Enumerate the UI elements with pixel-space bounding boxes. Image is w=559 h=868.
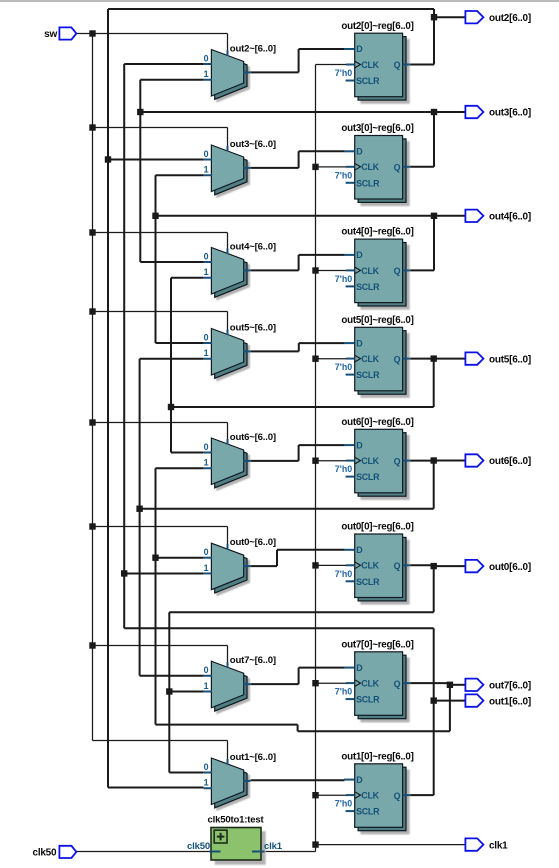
wire clock branch to CLK: [316, 460, 347, 462]
wire select drop into mux: [227, 312, 229, 331]
wire out1 feedback: [124, 627, 434, 629]
junction sw tap: [89, 523, 95, 529]
svg-text:CLK: CLK: [361, 60, 379, 70]
svg-text:Q: Q: [394, 456, 401, 466]
wire clock branch to CLK: [316, 564, 347, 566]
wire out7 to mux out0 input 0: [156, 557, 204, 559]
svg-text:Q: Q: [394, 791, 401, 801]
block clk50to1:test: [187, 814, 283, 864]
junction sw tap: [89, 124, 95, 130]
output port clk1: [465, 838, 508, 851]
net out0: Q to port and feedback: [410, 564, 434, 566]
svg-text:out0~[6..0]: out0~[6..0]: [230, 537, 276, 548]
svg-text:SCLR: SCLR: [356, 282, 380, 292]
svg-text:out3[0]~reg[6..0]: out3[0]~reg[6..0]: [341, 123, 413, 134]
output port out0[6..0]: [465, 560, 531, 573]
svg-text:0: 0: [204, 442, 209, 452]
wire out3 to mux out2 input 1: [140, 79, 203, 81]
svg-text:0: 0: [204, 332, 209, 342]
wire out4 feedback: [156, 215, 435, 217]
output port out7[6..0]: [465, 679, 531, 692]
svg-text:out3~[6..0]: out3~[6..0]: [230, 139, 276, 150]
svg-text:out1[0]~reg[6..0]: out1[0]~reg[6..0]: [341, 751, 413, 762]
output port out6[6..0]: [465, 454, 531, 467]
mux out0~[6..0]: [204, 537, 276, 595]
wire clock branch to CLK: [316, 166, 347, 168]
svg-text:out7[6..0]: out7[6..0]: [489, 681, 531, 692]
svg-text:D: D: [356, 147, 363, 157]
wire out2 feedback to mux out3 input 0: [108, 159, 204, 161]
wire clock branch to CLK: [316, 358, 347, 360]
svg-text:SCLR: SCLR: [356, 807, 380, 817]
svg-text:7'h0: 7'h0: [335, 569, 352, 579]
svg-text:CLK: CLK: [361, 456, 379, 466]
svg-text:out6~[6..0]: out6~[6..0]: [230, 432, 276, 443]
net out6: Q to port and feedback: [410, 460, 434, 462]
svg-text:CLK: CLK: [361, 791, 379, 801]
svg-text:out2~[6..0]: out2~[6..0]: [230, 43, 276, 54]
svg-text:out4~[6..0]: out4~[6..0]: [230, 241, 276, 252]
svg-text:Q: Q: [394, 163, 401, 173]
wire select drop into mux: [227, 423, 229, 440]
junction sw tap: [89, 308, 95, 314]
wire out1 to mux out0 input 1: [124, 572, 203, 574]
wire out4 to mux out3 input 1: [156, 174, 204, 176]
svg-text:out6[6..0]: out6[6..0]: [489, 456, 531, 467]
net sw: wire from sw port to mux selects: [76, 33, 227, 35]
register out1[0]~reg[6..0]: [335, 751, 414, 833]
svg-text:clk1: clk1: [489, 840, 508, 851]
svg-text:D: D: [356, 775, 363, 785]
svg-text:1: 1: [204, 563, 209, 573]
wire clock branch to CLK: [316, 794, 347, 796]
svg-text:D: D: [356, 338, 363, 348]
wire out5 mux output to register D: [251, 350, 299, 352]
svg-text:SCLR: SCLR: [356, 577, 380, 587]
register out6[0]~reg[6..0]: [335, 417, 414, 499]
svg-text:1: 1: [204, 267, 209, 277]
wire select drop into mux: [227, 233, 229, 250]
mux out6~[6..0]: [204, 432, 276, 490]
svg-text:out4[6..0]: out4[6..0]: [489, 212, 531, 223]
svg-text:out5[0]~reg[6..0]: out5[0]~reg[6..0]: [341, 315, 413, 326]
svg-text:out0[6..0]: out0[6..0]: [489, 562, 531, 573]
svg-text:0: 0: [204, 53, 209, 63]
wire out0 to mux out7 input 1: [169, 691, 203, 693]
wire out5 feedback: [433, 359, 435, 407]
register out5[0]~reg[6..0]: [335, 315, 414, 397]
svg-text:SCLR: SCLR: [356, 695, 380, 705]
wire sw select tap: [93, 740, 228, 742]
svg-text:CLK: CLK: [361, 679, 379, 689]
junction sw tap: [89, 419, 95, 425]
wire sw select tap: [93, 311, 228, 313]
svg-text:D: D: [356, 663, 363, 673]
wire out5 to mux out4 input 1: [171, 277, 204, 279]
svg-text:7'h0: 7'h0: [335, 799, 352, 809]
svg-text:SCLR: SCLR: [356, 472, 380, 482]
register out4[0]~reg[6..0]: [335, 227, 414, 309]
svg-text:D: D: [356, 440, 363, 450]
svg-text:out3[6..0]: out3[6..0]: [489, 108, 531, 119]
input port clk50: [33, 846, 77, 859]
wire out5 to mux out6 input 0: [171, 452, 204, 454]
wire out0 mux output to register D: [251, 565, 277, 567]
svg-text:out7~[6..0]: out7~[6..0]: [230, 655, 276, 666]
svg-text:7'h0: 7'h0: [335, 362, 352, 372]
svg-text:out1~[6..0]: out1~[6..0]: [230, 752, 276, 763]
svg-text:Q: Q: [394, 266, 401, 276]
svg-text:out2[6..0]: out2[6..0]: [489, 13, 531, 24]
junction sw tap: [89, 642, 95, 648]
mux out3~[6..0]: [204, 139, 276, 197]
svg-text:Q: Q: [394, 561, 401, 571]
svg-text:0: 0: [204, 762, 209, 772]
svg-text:7'h0: 7'h0: [335, 68, 352, 78]
window top border: [0, 0, 559, 2]
net out5: Q to port and feedback: [410, 358, 434, 360]
net out3: Q to port and feedback: [410, 166, 434, 168]
wire clk1 to output port: [316, 844, 466, 846]
wire out1 mux output to register D: [251, 779, 345, 781]
output port out5[6..0]: [465, 352, 531, 365]
svg-text:CLK: CLK: [361, 561, 379, 571]
wire out2 mux output to register D: [251, 71, 299, 73]
wire sw select tap: [93, 422, 228, 424]
wire select drop into mux: [227, 128, 229, 147]
svg-text:D: D: [356, 250, 363, 260]
net out7: Q to port and feedback: [410, 682, 450, 684]
svg-text:out4[0]~reg[6..0]: out4[0]~reg[6..0]: [341, 227, 413, 238]
output port out4[6..0]: [465, 210, 531, 223]
svg-text:0: 0: [204, 547, 209, 557]
wire sw select tap: [93, 526, 228, 528]
svg-text:D: D: [356, 545, 363, 555]
svg-text:out6[0]~reg[6..0]: out6[0]~reg[6..0]: [341, 417, 413, 428]
svg-text:7'h0: 7'h0: [335, 687, 352, 697]
svg-text:0: 0: [204, 149, 209, 159]
output port out2[6..0]: [465, 11, 531, 24]
svg-text:Q: Q: [394, 60, 401, 70]
net out4: Q to port and feedback: [410, 269, 434, 271]
wire out3 feedback: [140, 111, 434, 113]
svg-text:SCLR: SCLR: [356, 178, 380, 188]
svg-text:D: D: [356, 44, 363, 54]
svg-text:0: 0: [204, 251, 209, 261]
svg-text:7'h0: 7'h0: [335, 274, 352, 284]
wire clock branch to CLK: [316, 270, 347, 272]
output port out3[6..0]: [465, 106, 531, 119]
svg-text:7'h0: 7'h0: [335, 464, 352, 474]
svg-text:Q: Q: [394, 679, 401, 689]
net out2: Q to port and feedback: [410, 64, 434, 66]
wire select drop into mux: [227, 34, 229, 52]
svg-text:clk50: clk50: [33, 848, 57, 859]
wire out6 to mux out7 input 0: [140, 675, 204, 677]
wire out4 mux output to register D: [251, 269, 299, 271]
wire out7 mux output to register D: [251, 683, 299, 685]
svg-text:out5[6..0]: out5[6..0]: [489, 354, 531, 365]
wire out4 to mux out5 input 0: [156, 342, 204, 344]
svg-text:1: 1: [204, 778, 209, 788]
net out1: Q to ports and feedback: [410, 794, 434, 796]
svg-text:CLK: CLK: [361, 266, 379, 276]
wire out6 mux output to register D: [251, 460, 299, 462]
mux out2~[6..0]: [204, 43, 276, 101]
wire select drop into mux: [227, 527, 229, 545]
wire out3 to mux out4 input 0: [140, 261, 203, 263]
wire out1 to mux out2 input 0: [124, 63, 203, 65]
junction sw first tap: [89, 30, 95, 36]
svg-text:1: 1: [204, 681, 209, 691]
svg-text:Q: Q: [394, 354, 401, 364]
wire clock to reg out2 CLK: [316, 64, 347, 66]
wire clock branch to CLK: [316, 682, 347, 684]
net clk1: clock spine: [315, 65, 317, 852]
svg-text:0: 0: [204, 665, 209, 675]
wire select drop into mux: [227, 741, 229, 760]
junction sw tap: [89, 229, 95, 235]
wire sw select tap: [93, 232, 228, 234]
svg-text:1: 1: [204, 458, 209, 468]
svg-text:7'h0: 7'h0: [335, 170, 352, 180]
wire out7 to mux out6 input 1: [156, 467, 204, 469]
mux out7~[6..0]: [204, 655, 276, 713]
wire out0 feedback: [433, 566, 435, 612]
svg-text:CLK: CLK: [361, 354, 379, 364]
wire clk50to1 output to clock spine: [264, 851, 316, 853]
wire out6 to mux out5 input 1: [140, 358, 204, 360]
mux out5~[6..0]: [204, 322, 276, 380]
svg-text:1: 1: [204, 69, 209, 79]
wire out6 feedback: [433, 461, 435, 509]
svg-text:out5~[6..0]: out5~[6..0]: [230, 322, 276, 333]
wire out2 feedback to mux out1 input 1: [108, 787, 204, 789]
wire out0 to mux out1 input 0: [169, 772, 203, 774]
svg-text:SCLR: SCLR: [356, 76, 380, 86]
mux out1~[6..0]: [204, 752, 276, 810]
output port out1[6..0]: [465, 694, 531, 707]
wire out7 feedback: [449, 685, 451, 731]
register out0[0]~reg[6..0]: [335, 522, 414, 604]
svg-text:1: 1: [204, 348, 209, 358]
svg-text:out2[0]~reg[6..0]: out2[0]~reg[6..0]: [341, 21, 413, 32]
svg-text:out1[6..0]: out1[6..0]: [489, 696, 531, 707]
input port sw: [44, 27, 76, 40]
register out7[0]~reg[6..0]: [335, 639, 414, 721]
svg-text:clk50to1:test: clk50to1:test: [207, 814, 264, 825]
register out3[0]~reg[6..0]: [335, 123, 414, 205]
wire out3 mux output to register D: [251, 167, 299, 169]
wire sw select tap: [93, 127, 228, 129]
register out2[0]~reg[6..0]: [335, 21, 414, 103]
svg-text:out0[0]~reg[6..0]: out0[0]~reg[6..0]: [341, 522, 413, 533]
net clk50: wire from clk50 port to block: [76, 851, 210, 853]
svg-text:clk50: clk50: [187, 841, 210, 852]
svg-text:1: 1: [204, 165, 209, 175]
svg-text:CLK: CLK: [361, 162, 379, 172]
svg-text:SCLR: SCLR: [356, 370, 380, 380]
svg-text:out7[0]~reg[6..0]: out7[0]~reg[6..0]: [341, 639, 413, 650]
wire out2 feedback top: [108, 8, 434, 10]
wire sw select tap: [93, 645, 228, 647]
wire select drop into mux: [227, 646, 229, 663]
svg-text:sw: sw: [44, 29, 57, 40]
svg-text:clk1: clk1: [264, 841, 283, 852]
mux out4~[6..0]: [204, 241, 276, 299]
